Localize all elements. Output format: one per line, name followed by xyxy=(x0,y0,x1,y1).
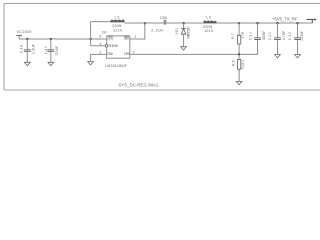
svg-text:2.2UF: 2.2UF xyxy=(151,28,164,33)
svg-text:10K: 10K xyxy=(240,31,244,39)
inductor L6 xyxy=(203,15,217,33)
svg-text:2: 2 xyxy=(99,50,101,54)
wire C38 drop xyxy=(26,39,28,62)
svg-text:5: 5 xyxy=(99,34,101,38)
svg-text:GND: GND xyxy=(108,52,114,56)
wire top rail xyxy=(91,21,111,23)
resistor R7 xyxy=(231,23,245,54)
svg-text:C28: C28 xyxy=(160,15,167,20)
svg-text:+5V5_TX_RF: +5V5_TX_RF xyxy=(272,17,298,22)
wire pin 1 SW riser xyxy=(130,23,145,39)
pin 4 inversion bubble xyxy=(105,44,108,47)
capacitor C30 xyxy=(268,23,286,55)
ground under C38 xyxy=(24,62,30,65)
ground under C32 xyxy=(295,55,301,58)
node junction SW on top rail xyxy=(144,22,146,24)
svg-text:L6: L6 xyxy=(206,15,211,19)
ground under C40 xyxy=(48,62,54,65)
svg-text:C40: C40 xyxy=(44,46,48,54)
resistor R8 xyxy=(231,54,245,81)
svg-text:4: 4 xyxy=(99,42,101,46)
svg-text:C30: C30 xyxy=(268,32,272,40)
capacitor C40 xyxy=(47,50,54,52)
svg-text:4.7UF: 4.7UF xyxy=(282,31,286,41)
node junction VD1 xyxy=(182,22,184,24)
capacitor C38 xyxy=(24,50,31,52)
svg-text:C38: C38 xyxy=(19,45,23,53)
svg-text:1210: 1210 xyxy=(204,28,214,33)
svg-text:SYS_DC-REG /MA1.: SYS_DC-REG /MA1. xyxy=(118,82,159,87)
svg-text:2.2UF: 2.2UF xyxy=(32,44,36,54)
svg-text:VD1: VD1 xyxy=(175,27,179,34)
wire riser to top rail and down to pin 4 xyxy=(91,22,105,46)
svg-text:LM2611BMF: LM2611BMF xyxy=(105,64,128,68)
inductor L5 xyxy=(110,15,124,32)
node junction R7 on top rail xyxy=(238,22,240,24)
svg-text:MBR0530: MBR0530 xyxy=(187,26,191,38)
svg-text:NFB: NFB xyxy=(124,52,130,56)
svg-text:L5: L5 xyxy=(115,15,120,19)
wire pin 2 to ground xyxy=(91,54,107,61)
svg-text:C31: C31 xyxy=(249,32,253,40)
svg-text:1: 1 xyxy=(135,35,137,39)
ground under R8 xyxy=(236,81,242,84)
svg-text:51K1: 51K1 xyxy=(241,60,245,69)
node junction NFB/R8 xyxy=(238,53,240,55)
node junction at C38 xyxy=(26,38,28,40)
svg-text:SHDN*: SHDN* xyxy=(108,44,119,48)
svg-text:R8: R8 xyxy=(231,60,235,66)
svg-text:VIN: VIN xyxy=(108,36,113,40)
svg-text:100NF: 100NF xyxy=(55,46,59,56)
diode VD1 xyxy=(175,23,191,47)
ground under VD1 xyxy=(181,47,187,50)
svg-text:100NF: 100NF xyxy=(300,31,304,41)
sheet border frame xyxy=(4,3,320,90)
svg-text:C32: C32 xyxy=(288,32,292,40)
capacitor C31 xyxy=(239,23,266,54)
node junction rail to IC riser xyxy=(89,38,91,40)
svg-text:330NF: 330NF xyxy=(262,31,266,41)
net label +5V5_TX_RF xyxy=(272,17,317,23)
svg-text:VCC5V5: VCC5V5 xyxy=(17,30,32,34)
svg-text:1210: 1210 xyxy=(113,27,123,32)
ground under pin 2 xyxy=(88,62,94,65)
node junction C30 xyxy=(276,22,278,24)
node junction at C40 xyxy=(50,38,52,40)
capacitor C32 xyxy=(288,23,304,55)
ground under C30 xyxy=(275,55,281,58)
svg-text:R7: R7 xyxy=(231,33,235,39)
capacitor C28 (series) xyxy=(151,15,167,33)
wire pin 3 NFB feedback line xyxy=(130,53,239,55)
wire C40 drop xyxy=(50,39,52,62)
power flag VCC5V5 xyxy=(16,30,31,39)
svg-text:D3: D3 xyxy=(102,31,107,35)
wire VIN rail xyxy=(19,38,107,40)
IC D3 LM2611BMF xyxy=(102,31,131,68)
node junction C32 xyxy=(296,22,298,24)
node junction C31 xyxy=(256,22,258,24)
